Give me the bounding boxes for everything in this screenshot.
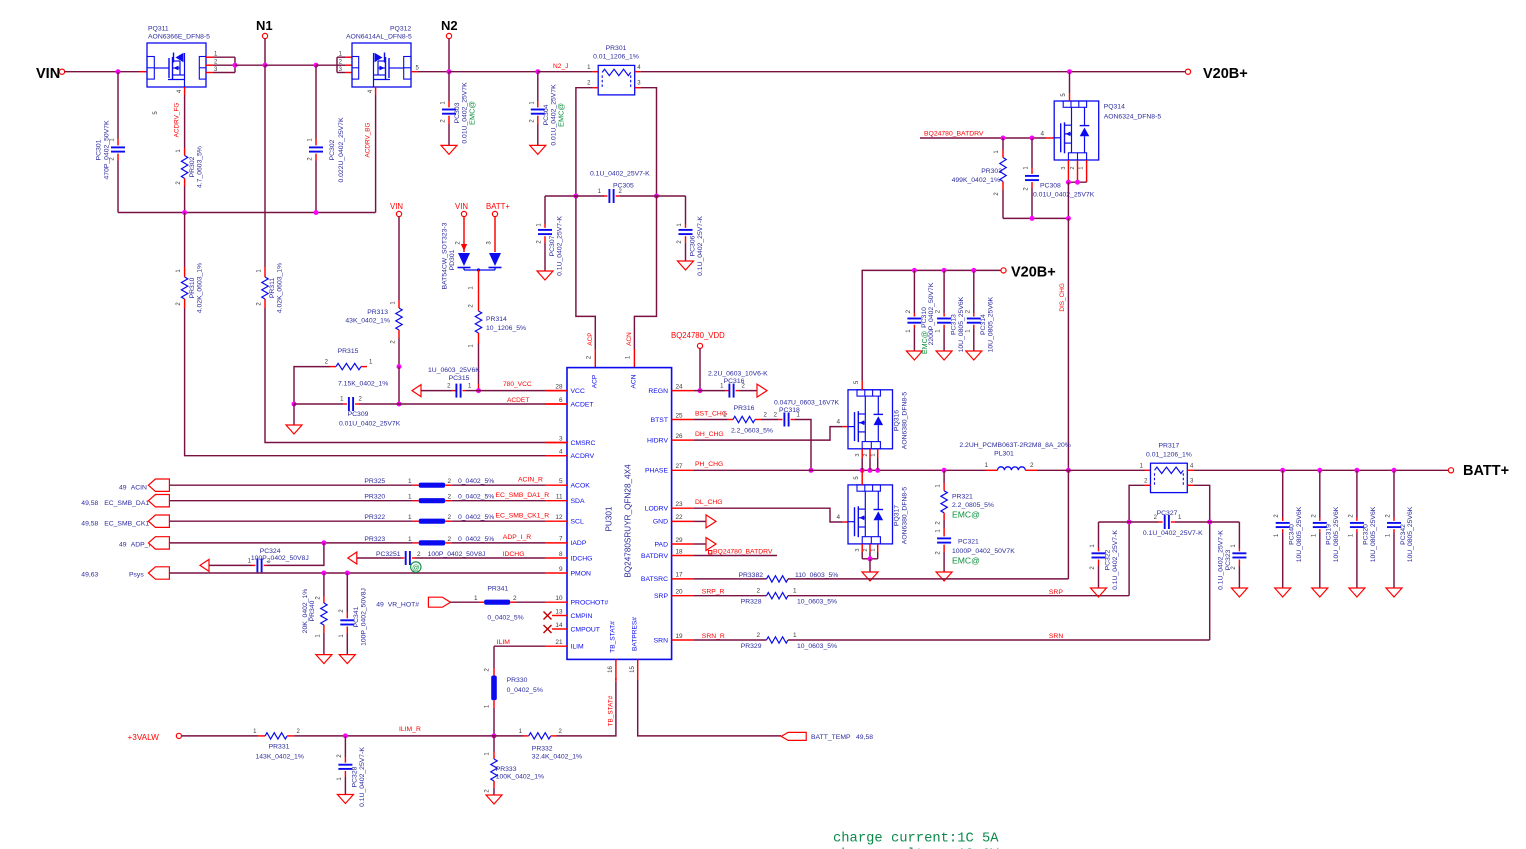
PR301 stub4	[635, 71, 641, 73]
wire VIN mid down	[398, 217, 400, 300]
junction PQ314 s2	[1075, 180, 1080, 185]
resistor PR303	[1002, 138, 1004, 150]
svg-text:10_0603_5%: 10_0603_5%	[797, 643, 837, 650]
svg-text:PR313: PR313	[367, 309, 388, 316]
svg-text:10_1206_5%: 10_1206_5%	[486, 325, 526, 332]
junction ACN sense	[654, 194, 659, 199]
svg-text:DIS_CHG: DIS_CHG	[1059, 283, 1066, 311]
svg-text:VCC: VCC	[571, 388, 585, 395]
svg-text:49,58: 49,58	[856, 734, 873, 741]
wire PR301 pin2 sense	[576, 88, 593, 196]
svg-text:AON6380_DFN8-5: AON6380_DFN8-5	[902, 392, 909, 450]
junction PHASE c	[875, 468, 880, 473]
svg-text:IDCHG: IDCHG	[571, 555, 593, 562]
ground PC303	[441, 145, 457, 154]
svg-text:1: 1	[871, 453, 877, 456]
svg-text:SDA: SDA	[571, 498, 585, 505]
resistor PR332	[524, 735, 529, 737]
svg-text:PC324: PC324	[260, 548, 281, 555]
wire ACP	[576, 196, 595, 349]
no-connect X CMPOUT	[552, 628, 567, 630]
svg-text:PR310: PR310	[189, 277, 196, 298]
svg-text:VIN: VIN	[390, 202, 403, 211]
wire 780_VCC	[479, 390, 546, 392]
capacitor PC319	[1319, 470, 1321, 517]
svg-text:PR332: PR332	[532, 745, 553, 752]
wire PC323 link	[1210, 521, 1240, 523]
svg-text:PR301: PR301	[606, 45, 627, 52]
PR317 stub4	[1187, 469, 1193, 471]
svg-text:PC342: PC342	[1400, 524, 1407, 545]
svg-text:0_0402_5%: 0_0402_5%	[487, 615, 523, 622]
wire V20B+ rail	[641, 71, 1185, 73]
diode PD301 BAT54CW	[458, 253, 470, 266]
transistor PQ317 AON6380	[848, 485, 893, 544]
junction rail PC308	[1030, 216, 1035, 221]
wire V20B+ mid	[862, 270, 1001, 380]
wire VIN stub	[140, 71, 147, 73]
junction PHASE b	[868, 468, 873, 473]
port circle +3VALW	[176, 733, 181, 738]
ground PC328	[337, 795, 353, 804]
junction PC302	[314, 63, 319, 68]
svg-text:ACN: ACN	[631, 374, 638, 388]
svg-text:CMPOUT: CMPOUT	[571, 626, 600, 633]
IC left stub	[545, 542, 567, 544]
svg-text:18: 18	[676, 548, 684, 555]
svg-text:43K_0402_1%: 43K_0402_1%	[345, 318, 390, 325]
svg-text:2: 2	[448, 514, 452, 521]
svg-text:PU301: PU301	[605, 506, 614, 531]
svg-text:2.2_0805_5%: 2.2_0805_5%	[952, 502, 994, 509]
wire BATT+ to diode	[494, 217, 496, 252]
junction PC342	[1392, 468, 1397, 473]
wire BATDRV	[694, 555, 777, 557]
port circle BATT+ diode	[492, 211, 497, 216]
svg-text:0.1U_0402_25V7-K: 0.1U_0402_25V7-K	[1217, 530, 1224, 590]
resistor PR322	[413, 520, 419, 522]
svg-text:PC310: PC310	[921, 307, 928, 328]
wire PQ312 gate down	[375, 95, 377, 213]
CMSRC stub	[545, 442, 567, 444]
PQ316 pin5 stub	[861, 381, 863, 390]
svg-text:PC301: PC301	[96, 139, 103, 160]
svg-text:EMC@: EMC@	[557, 103, 566, 127]
tag Psys	[148, 567, 169, 579]
svg-text:PROCHOT#: PROCHOT#	[571, 600, 609, 607]
svg-text:PQ311: PQ311	[148, 26, 169, 33]
junction Psys/PR340	[321, 571, 326, 576]
PQ314 source stubs	[1067, 160, 1069, 182]
svg-text:1U_0603_25V6K: 1U_0603_25V6K	[428, 367, 480, 374]
wire to ground	[293, 404, 295, 425]
svg-text:0_0402_5%: 0_0402_5%	[507, 687, 543, 694]
wire PQ312 to N2	[418, 71, 449, 73]
svg-text:PC341: PC341	[353, 606, 360, 627]
svg-text:LODRV: LODRV	[645, 506, 669, 513]
capacitor PC301	[117, 72, 119, 139]
op-amp U1 PU301 BQ24780S IC body	[567, 368, 672, 660]
svg-text:110_0603_5%: 110_0603_5%	[795, 572, 838, 579]
junction N2_J	[535, 69, 540, 74]
junction PQ317 source	[868, 556, 873, 561]
svg-text:N1: N1	[256, 18, 273, 33]
wire SRN up	[1209, 522, 1211, 640]
wire ACDET to IC	[399, 403, 545, 405]
wire PROCHOT#	[516, 601, 546, 603]
transistor PQ314 AON6324	[1054, 101, 1099, 160]
svg-text:10U_0805_25V6K: 10U_0805_25V6K	[958, 296, 965, 352]
svg-text:0.1U_0402_25V7-K: 0.1U_0402_25V7-K	[590, 171, 650, 178]
svg-text:PR3382: PR3382	[738, 572, 763, 579]
svg-text:V20B+: V20B+	[1203, 66, 1248, 82]
svg-text:2: 2	[863, 453, 869, 456]
wire SRP long	[788, 595, 1129, 597]
svg-text:PR325: PR325	[364, 478, 385, 485]
svg-text:25: 25	[676, 412, 684, 419]
svg-text:1: 1	[793, 632, 797, 639]
svg-text:PR311: PR311	[269, 278, 276, 298]
svg-text:PR328: PR328	[741, 599, 762, 606]
IC left stub	[545, 390, 567, 392]
VCC stub	[545, 390, 567, 392]
wire V20B+ to PQ314	[1069, 72, 1071, 93]
capacitor PC310	[913, 270, 915, 313]
ground PC321	[936, 572, 952, 581]
wire N2 to N2_J	[449, 71, 538, 73]
ground PC340	[1275, 588, 1291, 597]
svg-text:2.2UH_PCMB063T-2R2M8_8A_20%: 2.2UH_PCMB063T-2R2M8_8A_20%	[959, 442, 1070, 449]
IC pin 17 stub	[672, 578, 694, 580]
wire to PQ312 loop	[316, 64, 337, 66]
svg-text:EC_SMB_CK1: EC_SMB_CK1	[104, 521, 149, 528]
svg-text:499K_0402_1%: 499K_0402_1%	[952, 177, 1000, 184]
svg-text:23: 23	[676, 501, 684, 508]
port V20B+ mid	[1001, 268, 1006, 273]
wire CMSRC to IC	[265, 308, 545, 443]
svg-text:PR302: PR302	[189, 156, 196, 177]
wire PR317 pin3 sense	[1193, 485, 1209, 522]
svg-text:EC_SMB_CK1_R: EC_SMB_CK1_R	[496, 513, 550, 520]
wire PR317 pin2 sense	[1129, 485, 1144, 522]
svg-text:49,63: 49,63	[81, 572, 98, 579]
wire N1 down	[264, 39, 266, 66]
svg-text:12: 12	[555, 514, 563, 521]
svg-text:SRN: SRN	[654, 637, 668, 644]
svg-text:10U_0805_25V6K: 10U_0805_25V6K	[1370, 506, 1377, 562]
svg-text:PR316: PR316	[734, 405, 755, 412]
svg-text:0_0402_5%: 0_0402_5%	[458, 478, 494, 485]
svg-text:ADP_I_R: ADP_I_R	[503, 534, 531, 541]
wire PHASE	[694, 469, 986, 471]
ground PC320	[1349, 588, 1365, 597]
svg-text:PC323: PC323	[1225, 549, 1232, 570]
capacitor PC307	[544, 196, 546, 224]
capacitor PC318	[761, 419, 778, 421]
svg-text:ADP_I: ADP_I	[131, 542, 151, 549]
wire BATSRC long	[788, 578, 1068, 580]
wire BATDRV net	[920, 137, 1046, 139]
svg-text:3: 3	[1061, 166, 1067, 169]
svg-text:2: 2	[513, 595, 517, 602]
wire N2_J to PR301	[538, 71, 593, 73]
svg-text:28: 28	[555, 383, 563, 390]
svg-text:2: 2	[756, 632, 760, 639]
junction PHASE a	[860, 468, 865, 473]
svg-text:DH_CHG: DH_CHG	[695, 431, 724, 438]
svg-text:PC318: PC318	[779, 407, 800, 414]
wire diode common	[478, 270, 480, 300]
wire PC322 link	[1099, 521, 1130, 523]
wire BATT+ out	[1193, 469, 1448, 471]
svg-text:15: 15	[630, 666, 636, 673]
wire rail to PR332	[494, 735, 524, 737]
junction N1	[263, 63, 268, 68]
PQ311 pin stubs right	[206, 56, 213, 58]
svg-text:BQ24780_BATDRV: BQ24780_BATDRV	[713, 549, 773, 556]
svg-text:AON6366E_DFN8-5: AON6366E_DFN8-5	[148, 34, 210, 41]
svg-text:10_0603_5%: 10_0603_5%	[797, 599, 837, 606]
svg-text:7.15K_0402_1%: 7.15K_0402_1%	[338, 381, 388, 388]
svg-text:2: 2	[1030, 462, 1034, 469]
resistor PR313	[398, 300, 400, 308]
IC pin 25 stub	[672, 419, 694, 421]
svg-text:100P_0402_50V8J: 100P_0402_50V8J	[251, 555, 309, 562]
svg-text:8: 8	[559, 551, 563, 558]
IC left stub	[545, 645, 567, 647]
wire ILIM down	[493, 646, 495, 668]
resistor PR323	[413, 542, 419, 544]
svg-text:PC315: PC315	[449, 375, 470, 382]
junction PC319	[1317, 468, 1322, 473]
svg-text:PC305: PC305	[613, 183, 634, 190]
svg-text:1: 1	[871, 548, 877, 551]
svg-text:10: 10	[555, 595, 563, 602]
svg-text:ACP: ACP	[587, 332, 594, 345]
svg-text:4: 4	[559, 449, 563, 456]
svg-text:BQ24780SRUYR_QFN28_4X4: BQ24780SRUYR_QFN28_4X4	[624, 464, 633, 578]
svg-text:SRN: SRN	[1049, 633, 1063, 640]
IC pin 20 stub	[672, 595, 694, 597]
transistor PQ311 AON6366E	[147, 43, 206, 87]
svg-text:ACP: ACP	[592, 374, 599, 388]
svg-text:0.022U_0402_25V7K: 0.022U_0402_25V7K	[338, 117, 345, 182]
svg-text:CMSRC: CMSRC	[571, 440, 596, 447]
svg-text:1: 1	[1079, 166, 1085, 169]
svg-text:PR320: PR320	[364, 494, 385, 501]
svg-text:0_0402_5%: 0_0402_5%	[458, 494, 494, 501]
wire ADP_I	[169, 542, 412, 544]
svg-text:2: 2	[863, 548, 869, 551]
PQ317 pin5 stub	[861, 470, 863, 476]
svg-text:DL_CHG: DL_CHG	[695, 499, 723, 506]
svg-text:PHASE: PHASE	[645, 468, 669, 475]
svg-text:PQ317: PQ317	[894, 505, 901, 526]
svg-text:22: 22	[676, 514, 684, 521]
PQ312 input loop	[336, 57, 338, 72]
port VIN	[59, 69, 64, 74]
svg-text:AON6324_DFN8-5: AON6324_DFN8-5	[1104, 114, 1162, 121]
IC left stub	[545, 403, 567, 405]
ground PC307	[537, 271, 553, 280]
svg-text:PR323: PR323	[364, 536, 385, 543]
capacitor PC321	[943, 520, 945, 528]
junction ACDET	[397, 402, 402, 407]
svg-text:PR329: PR329	[741, 643, 762, 650]
svg-text:BATSRC: BATSRC	[641, 576, 668, 583]
svg-text:ILIM: ILIM	[497, 639, 511, 646]
svg-text:ACDRV_BG: ACDRV_BG	[365, 122, 372, 157]
svg-text:PH_CHG: PH_CHG	[695, 461, 723, 468]
tag ADP_I	[148, 537, 169, 549]
svg-text:REGN: REGN	[648, 388, 668, 395]
svg-text:49,58: 49,58	[81, 500, 98, 507]
wire PQ311 gate down	[184, 95, 186, 148]
IC left stub	[545, 557, 567, 559]
svg-text:0.1U_0402_25V7-K: 0.1U_0402_25V7-K	[557, 216, 564, 276]
resistor PR311	[264, 267, 266, 277]
svg-text:49: 49	[119, 485, 127, 492]
wire ILIM_R rail	[294, 735, 494, 737]
svg-text:ACDET: ACDET	[571, 401, 594, 408]
wire PR313 down	[398, 338, 400, 367]
wire PR301 pin3 sense	[641, 88, 657, 196]
wire PQ317 source to gnd	[869, 559, 871, 572]
svg-text:EMC@: EMC@	[468, 101, 477, 125]
junction PC314	[971, 268, 976, 273]
junction N2	[447, 69, 452, 74]
svg-text:PC319: PC319	[1326, 524, 1333, 545]
PR314 stub	[478, 384, 480, 391]
ground PC313	[936, 351, 952, 360]
wire EC_SMB_DA1	[169, 500, 412, 502]
resistor PR333	[493, 736, 495, 752]
IC pin 23 stub	[672, 507, 694, 509]
junction rail PR302/PR310	[182, 210, 187, 215]
wire VDD down	[699, 349, 701, 391]
PQ311 output loop wires	[213, 56, 235, 58]
tag ACIN	[148, 479, 169, 491]
svg-text:BATT+: BATT+	[1463, 463, 1509, 479]
IC left stub	[545, 455, 567, 457]
PR317 stub1	[1145, 469, 1151, 471]
port circle VIN mid	[396, 211, 401, 216]
PR301 stub2	[593, 87, 599, 89]
wire BATSRC	[694, 578, 767, 580]
svg-text:GND: GND	[653, 519, 668, 526]
arrow PC3251	[348, 552, 357, 564]
svg-text:27: 27	[676, 463, 684, 470]
wire to ACDET node	[398, 367, 400, 404]
svg-text:PQ314: PQ314	[1104, 104, 1125, 111]
capacitor PC342	[1393, 470, 1395, 517]
svg-text:BTST: BTST	[651, 417, 668, 424]
port BATT+	[1448, 468, 1453, 473]
svg-text:+3VALW: +3VALW	[128, 733, 160, 742]
wire BATSRC up	[1067, 470, 1069, 579]
svg-text:1: 1	[793, 588, 797, 595]
svg-text:26: 26	[676, 433, 684, 440]
svg-text:PC3251: PC3251	[376, 551, 401, 558]
svg-text:14: 14	[555, 622, 563, 629]
port N2	[446, 33, 451, 38]
PR317 stub3	[1187, 484, 1193, 486]
junction SRP sense	[1127, 520, 1132, 525]
svg-text:SRN_R: SRN_R	[702, 633, 725, 640]
svg-text:PC306: PC306	[690, 235, 697, 256]
capacitor PC340	[1282, 470, 1284, 517]
svg-text:N2: N2	[441, 18, 458, 33]
svg-text:PC313: PC313	[951, 314, 958, 335]
junction PC313	[942, 268, 947, 273]
port circle BQ24780_VDD	[697, 343, 702, 348]
svg-text:3: 3	[855, 453, 861, 456]
svg-text:VIN: VIN	[455, 202, 468, 211]
svg-text:49: 49	[376, 602, 384, 609]
svg-text:ACIN: ACIN	[131, 485, 147, 492]
svg-text:0.1U_0402_25V7-K: 0.1U_0402_25V7-K	[1112, 530, 1119, 590]
wire ACIN_R	[451, 484, 545, 486]
wire DIS_CHG down	[1067, 218, 1069, 470]
svg-text:ACDET: ACDET	[507, 397, 529, 404]
svg-text:TB_STAT#: TB_STAT#	[608, 695, 615, 726]
svg-text:PQ312: PQ312	[390, 26, 411, 33]
wire EC_SMB_CK1_R	[451, 520, 545, 522]
wire HIDRV	[694, 427, 843, 441]
PQ312 pin5 stub	[411, 71, 418, 73]
svg-text:N2_J: N2_J	[553, 63, 568, 70]
wire +3VALW	[182, 735, 259, 737]
junction PQ311 loop	[233, 63, 238, 68]
green at symbol	[411, 562, 421, 572]
svg-text:2: 2	[448, 478, 452, 485]
svg-text:ILIM_R: ILIM_R	[399, 726, 421, 733]
wire TB_STAT# pullup	[557, 682, 616, 736]
svg-text:Psys: Psys	[129, 572, 144, 579]
port circle VIN diode	[461, 211, 466, 216]
junction ADP_I filter	[321, 540, 326, 545]
ground PC304	[530, 145, 546, 154]
capacitor PC303	[448, 72, 450, 101]
capacitor PC328	[344, 736, 346, 757]
svg-text:AON6414AL_DFN8-5: AON6414AL_DFN8-5	[346, 34, 412, 41]
svg-text:@: @	[412, 563, 420, 572]
wire EC_SMB_CK1	[169, 520, 412, 522]
svg-text:BAT54CW_SOT323-3: BAT54CW_SOT323-3	[442, 222, 449, 289]
resistor PR341	[479, 601, 484, 603]
svg-text:3: 3	[559, 435, 563, 442]
capacitor PC305	[604, 195, 607, 197]
svg-text:EC_SMB_DA1: EC_SMB_DA1	[104, 500, 149, 507]
svg-text:143K_0402_1%: 143K_0402_1%	[256, 754, 304, 761]
transistor PQ312 AON6414AL	[352, 43, 411, 87]
svg-text:PR330: PR330	[507, 677, 528, 684]
IC bottom stubs	[615, 659, 617, 680]
svg-text:AON6380_DFN8-5: AON6380_DFN8-5	[902, 487, 909, 545]
svg-text:5: 5	[559, 478, 563, 485]
resistor PR317 shunt	[1151, 463, 1188, 492]
wire ADP_I_R	[451, 542, 545, 544]
svg-text:6: 6	[559, 397, 563, 404]
capacitor PC306	[685, 196, 687, 224]
wire GND pin	[694, 520, 706, 522]
svg-text:CMPIN: CMPIN	[571, 613, 593, 620]
LODRV gate stub	[843, 521, 848, 523]
svg-text:100K_0402_1%: 100K_0402_1%	[496, 774, 544, 781]
svg-text:EMC@: EMC@	[920, 331, 929, 354]
IC left stub	[545, 601, 567, 603]
IC pin 27 stub	[672, 469, 694, 471]
